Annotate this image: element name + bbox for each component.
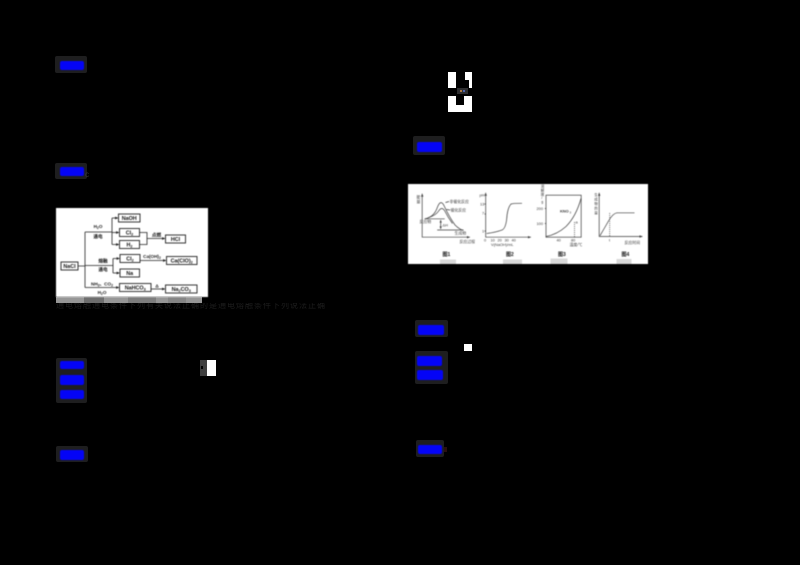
svg-text:反应时间: 反应时间 bbox=[625, 240, 641, 245]
svg-text:量: 量 bbox=[417, 199, 421, 204]
svg-text:V(NaOH)/mL: V(NaOH)/mL bbox=[491, 242, 514, 247]
svg-text:图2: 图2 bbox=[506, 251, 514, 258]
svg-text:成: 成 bbox=[594, 197, 598, 202]
svg-text:HCl: HCl bbox=[171, 237, 181, 243]
svg-text:100: 100 bbox=[537, 221, 544, 226]
svg-text:图4: 图4 bbox=[622, 251, 630, 258]
svg-text:图1: 图1 bbox=[443, 251, 451, 258]
svg-text:NaCl: NaCl bbox=[63, 264, 76, 270]
svg-text:NaHCO3: NaHCO3 bbox=[125, 286, 146, 292]
svg-text:生成物: 生成物 bbox=[455, 230, 467, 235]
svg-text:200: 200 bbox=[537, 206, 544, 211]
svg-text:ΔH: ΔH bbox=[443, 223, 449, 228]
svg-text:反应物: 反应物 bbox=[420, 219, 432, 224]
svg-text:Na2CO3: Na2CO3 bbox=[172, 287, 191, 293]
svg-text:H2O: H2O bbox=[94, 224, 103, 230]
svg-text:13: 13 bbox=[480, 201, 484, 206]
svg-text:量: 量 bbox=[594, 210, 598, 215]
svg-text:7: 7 bbox=[482, 210, 484, 215]
svg-text:点燃: 点燃 bbox=[152, 232, 162, 239]
svg-text:通电: 通电 bbox=[98, 266, 108, 273]
svg-text:NaOH: NaOH bbox=[122, 216, 137, 222]
svg-text:Na: Na bbox=[126, 271, 134, 277]
svg-text:物: 物 bbox=[594, 201, 598, 206]
svg-text:温度/℃: 温度/℃ bbox=[570, 242, 583, 247]
svg-text:反应过程: 反应过程 bbox=[460, 239, 476, 244]
svg-text:H2O: H2O bbox=[98, 290, 107, 296]
svg-text:Ca(OH)2: Ca(OH)2 bbox=[143, 254, 161, 260]
svg-text:通电: 通电 bbox=[93, 233, 103, 240]
svg-text:生: 生 bbox=[594, 192, 598, 197]
svg-text:的: 的 bbox=[594, 205, 598, 210]
svg-text:1: 1 bbox=[482, 228, 484, 233]
svg-text:催化反应: 催化反应 bbox=[451, 208, 467, 213]
svg-text:图3: 图3 bbox=[558, 251, 566, 258]
svg-text:g: g bbox=[541, 200, 543, 204]
svg-text:Ca(ClO)2: Ca(ClO)2 bbox=[171, 259, 193, 265]
svg-text:pH: pH bbox=[480, 193, 485, 198]
svg-text:KNO: KNO bbox=[560, 209, 569, 214]
svg-text:非催化反应: 非催化反应 bbox=[450, 199, 470, 204]
svg-text:熔融: 熔融 bbox=[98, 258, 108, 265]
